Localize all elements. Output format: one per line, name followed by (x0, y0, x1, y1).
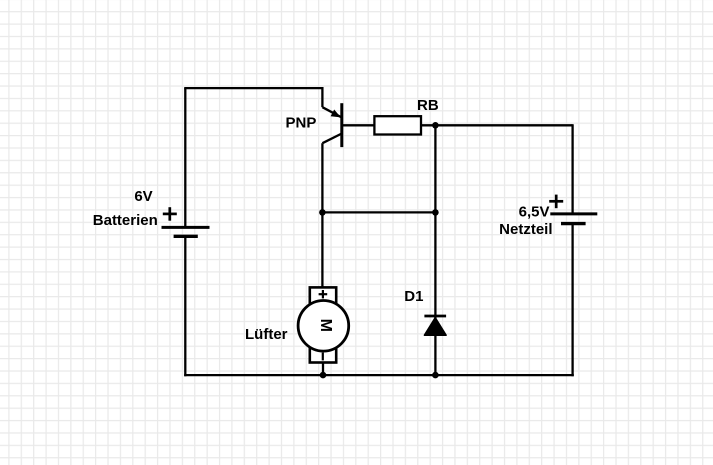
svg-text:6V: 6V (134, 188, 152, 205)
wire: left battery top terminal up to top rail (184, 88, 186, 228)
node: junction dot diode to bus (432, 372, 439, 379)
wire: emitter lead vertical drop (321, 87, 323, 107)
node: junction dot at RB output (432, 122, 439, 129)
wire: left battery bottom terminal to bus (184, 236, 186, 376)
svg-text:Batterien: Batterien (93, 212, 158, 229)
wire: right rail down to power supply battery (571, 124, 573, 214)
battery B1 plus sign (163, 207, 177, 221)
wire: diode branch vertical from RB node to bus (434, 125, 436, 375)
transistor Q1 base bar (340, 103, 343, 147)
battery B1 (Batterien) positive long plate (162, 226, 210, 229)
wire: collector vertical down to mid junction (321, 143, 323, 213)
node: junction dot left of mid link (319, 209, 326, 216)
svg-text:6,5V: 6,5V (519, 203, 550, 220)
diode D1 triangle (424, 318, 446, 336)
motor M1 plus mark (319, 290, 328, 298)
svg-text:Lüfter: Lüfter (245, 326, 288, 343)
diode D1 cathode bar (424, 315, 446, 318)
wire: motor bottom terminal to bus (322, 363, 324, 376)
transistor Q1 emitter diagonal with arrow (PNP) (322, 107, 341, 117)
svg-text:Netzteil: Netzteil (499, 221, 552, 238)
battery B2 negative short plate (561, 222, 586, 225)
motor M1 top terminal box (310, 287, 336, 304)
wire: mid horizontal link (322, 211, 435, 213)
svg-text:D1: D1 (404, 288, 423, 305)
wire: mid junction down to motor (321, 212, 323, 289)
wire: base to resistor RB (342, 124, 375, 126)
battery B1 negative short plate (174, 235, 198, 238)
battery B2 plus sign (549, 195, 563, 209)
motor M1 minus mark (rotated) (322, 353, 324, 361)
wire: bottom bus rail (184, 374, 574, 376)
svg-text:RB: RB (417, 97, 439, 114)
motor M1 bottom terminal box (310, 347, 336, 363)
battery B2 (Netzteil) positive long plate (550, 212, 597, 215)
node: junction dot right of mid link (432, 209, 439, 216)
svg-text:PNP: PNP (286, 114, 317, 131)
wire: resistor RB to right rail (421, 124, 573, 126)
resistor RB body (374, 116, 421, 134)
motor M1 body circle (298, 301, 349, 352)
node: junction dot motor to bus (320, 372, 327, 379)
svg-text:M: M (317, 319, 334, 332)
transistor Q1 collector diagonal (322, 134, 341, 144)
wire: top rail from left battery to transistor emitter (184, 87, 322, 89)
wire: power supply battery down to bottom bus (571, 224, 573, 377)
